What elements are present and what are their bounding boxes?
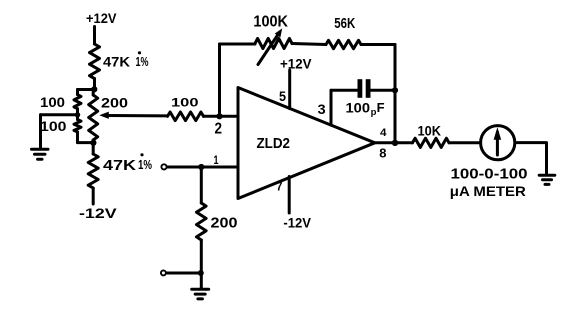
svg-text:56K: 56K xyxy=(334,16,355,32)
svg-text:+12V: +12V xyxy=(280,56,312,72)
svg-text:1: 1 xyxy=(214,155,219,167)
svg-text:100: 100 xyxy=(346,100,371,115)
svg-text:200: 200 xyxy=(211,215,238,232)
svg-text:7: 7 xyxy=(276,180,282,194)
svg-text:100K: 100K xyxy=(253,14,288,31)
svg-text:47K: 47K xyxy=(103,157,136,174)
svg-text:F: F xyxy=(377,100,385,115)
svg-text:1%: 1% xyxy=(136,55,149,69)
svg-text:100-0-100: 100-0-100 xyxy=(451,167,528,183)
svg-text:1%: 1% xyxy=(138,157,152,172)
svg-text:-12V: -12V xyxy=(79,205,117,221)
svg-text:-12V: -12V xyxy=(283,216,311,231)
svg-text:+12V: +12V xyxy=(86,10,117,26)
svg-text:4: 4 xyxy=(380,127,387,139)
svg-text:10K: 10K xyxy=(418,124,442,139)
svg-text:100: 100 xyxy=(40,95,65,110)
svg-text:2: 2 xyxy=(215,121,223,138)
svg-text:8: 8 xyxy=(379,146,386,161)
svg-text:μA METER: μA METER xyxy=(450,183,526,199)
svg-text:100: 100 xyxy=(171,96,199,110)
svg-text:5: 5 xyxy=(279,89,286,104)
svg-text:200: 200 xyxy=(101,95,128,111)
svg-text:ZLD2: ZLD2 xyxy=(257,136,291,152)
svg-text:47K: 47K xyxy=(103,54,130,70)
svg-text:3: 3 xyxy=(318,101,326,117)
svg-text:100: 100 xyxy=(40,119,67,134)
